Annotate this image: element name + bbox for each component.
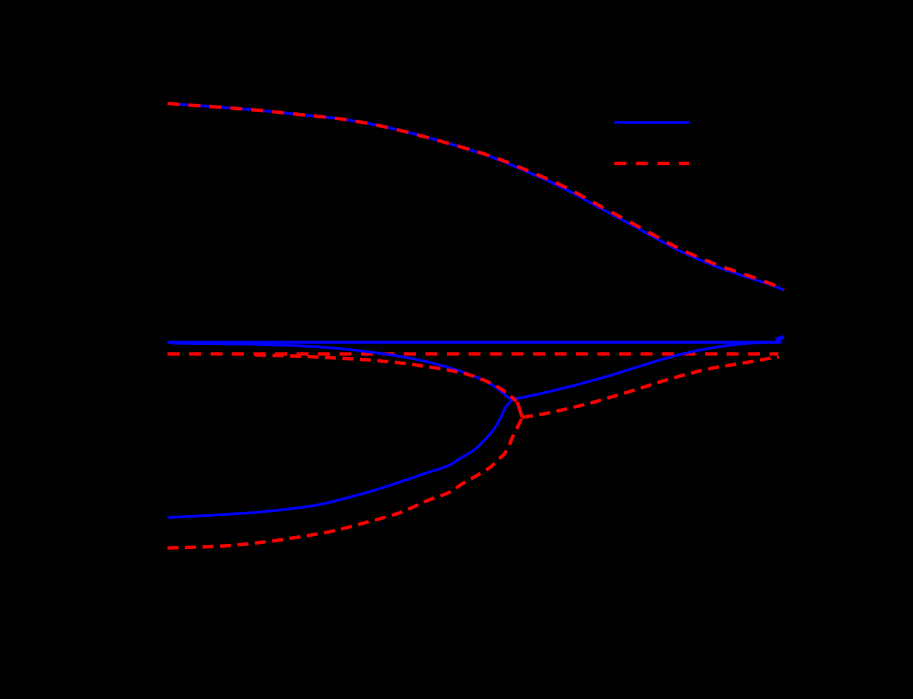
red rising line from nose to right: [522, 357, 779, 418]
red C lower branch: [168, 419, 522, 548]
middle horizontal blue line: [168, 341, 782, 344]
red vertical drop at nose junction: [517, 402, 522, 417]
blue rising line from fold nose to right: [511, 342, 768, 400]
blue C-shaped fold curve: [168, 343, 512, 517]
top sigmoid curve red dashed: [168, 104, 785, 290]
red C upper branch with vertical drop: [255, 355, 517, 402]
top sigmoid curve blue solid: [168, 104, 785, 291]
legend blue solid line sample: [614, 121, 689, 124]
legend red dashed line sample: [614, 162, 689, 165]
blue tip tick at right end: [776, 337, 785, 340]
middle horizontal red dashed line: [168, 352, 779, 355]
